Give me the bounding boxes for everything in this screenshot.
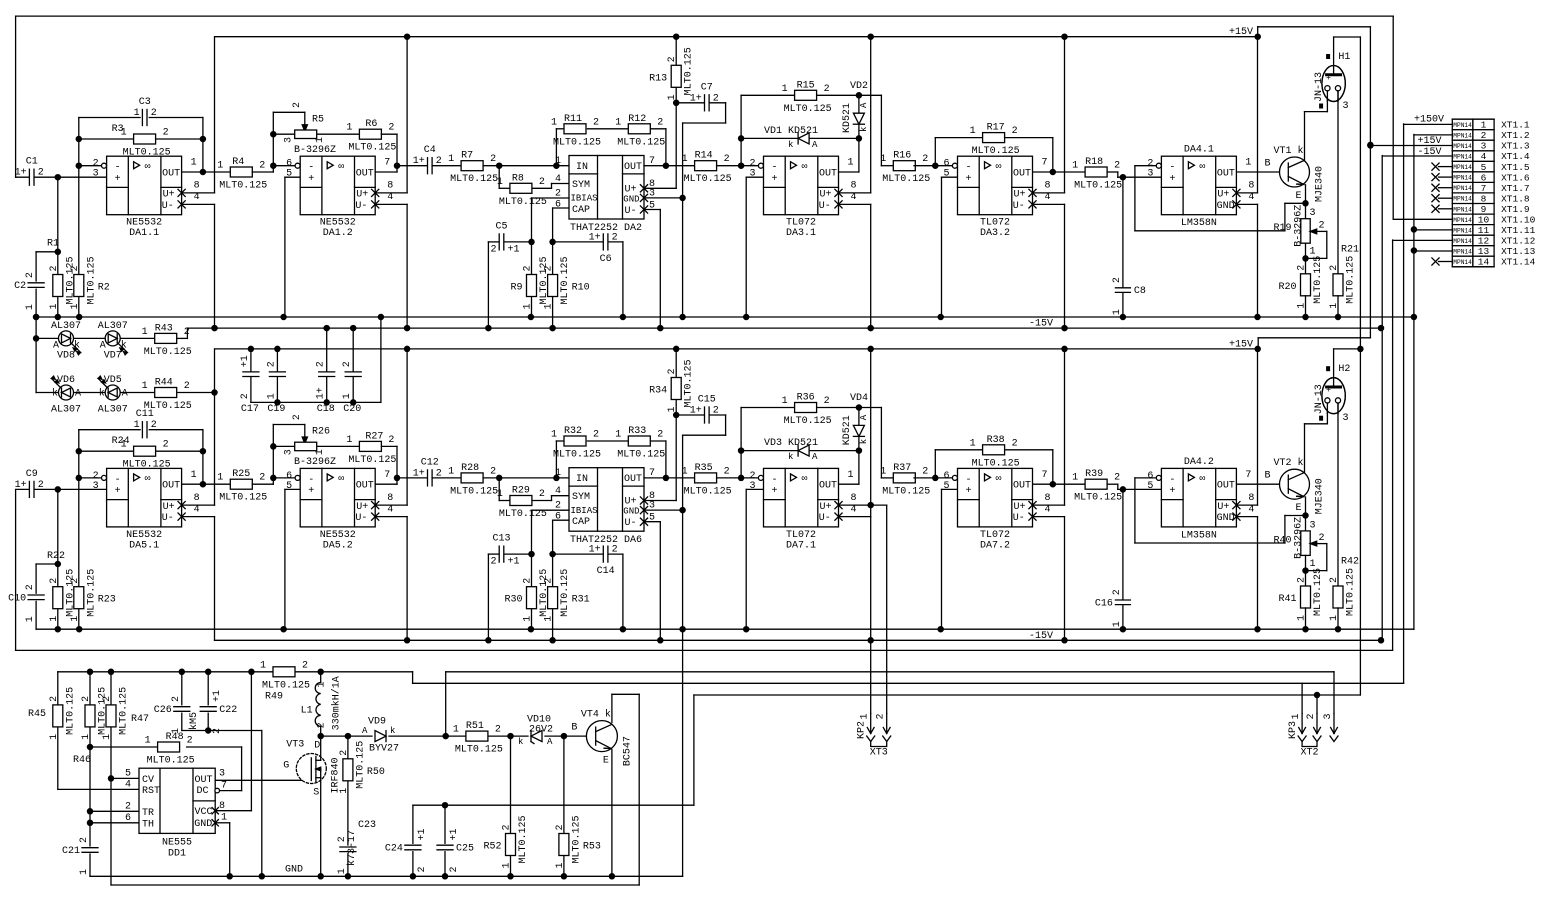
svg-text:1: 1 <box>448 154 454 165</box>
svg-text:2: 2 <box>388 123 394 134</box>
svg-text:-: - <box>966 475 972 486</box>
wire pin2 A5 feedback <box>1135 477 1157 479</box>
wire U+ riser A5 <box>1237 504 1258 506</box>
capacitor C15 <box>704 406 709 424</box>
svg-text:VT1: VT1 <box>1273 146 1291 157</box>
wire R16 out <box>914 165 952 167</box>
svg-text:k: k <box>390 726 395 736</box>
svg-text:MPN14: MPN14 <box>1453 249 1472 256</box>
svg-text:A: A <box>859 102 869 108</box>
svg-text:THAT2252 DA2: THAT2252 DA2 <box>570 223 642 234</box>
wire A2 supply pins <box>375 192 407 194</box>
svg-text:CAP: CAP <box>572 517 590 528</box>
svg-text:MPN14: MPN14 <box>1453 132 1472 139</box>
svg-text:C1: C1 <box>26 157 38 168</box>
capacitor C8 <box>1115 288 1130 293</box>
svg-text:+1: +1 <box>212 690 223 702</box>
wire R20 bottom <box>1305 296 1307 317</box>
svg-text:2: 2 <box>184 381 190 392</box>
wire out A3 <box>839 171 859 173</box>
wire LED row 1 <box>36 337 58 339</box>
svg-text:2: 2 <box>922 466 928 477</box>
svg-text:E: E <box>1296 191 1302 202</box>
svg-text:-: - <box>1169 475 1175 486</box>
svg-text:∞: ∞ <box>996 474 1002 485</box>
svg-text:MPN14: MPN14 <box>1453 206 1472 213</box>
svg-text:R25: R25 <box>232 469 250 480</box>
op-amp DA7.2 <box>958 468 1033 527</box>
wire R1 column <box>57 177 59 274</box>
wire VD2 column <box>858 95 860 172</box>
svg-text:U+: U+ <box>1014 502 1026 513</box>
svg-text:2: 2 <box>79 837 90 843</box>
svg-text:1: 1 <box>191 158 197 169</box>
wire C20 column <box>352 328 354 372</box>
svg-text:MJE340: MJE340 <box>1315 478 1326 514</box>
svg-text:XT3: XT3 <box>870 748 888 759</box>
svg-text:C8: C8 <box>1134 286 1146 297</box>
svg-text:5: 5 <box>125 768 131 779</box>
svg-text:R28: R28 <box>461 463 479 474</box>
svg-text:2: 2 <box>523 578 534 584</box>
svg-text:2: 2 <box>339 750 350 756</box>
resistor R20 <box>1301 274 1311 296</box>
svg-text:3: 3 <box>284 449 295 455</box>
wire input line ch2 (XT1.12) <box>15 490 17 651</box>
wire A1 supply pins <box>182 192 215 194</box>
wire VD10 line <box>511 735 529 737</box>
svg-text:C9: C9 <box>26 469 38 480</box>
svg-text:C24: C24 <box>385 844 403 855</box>
wire anode route H2 <box>1333 349 1335 378</box>
svg-text:k: k <box>1298 457 1304 469</box>
wire XT3 pin2 column <box>886 505 888 713</box>
svg-text:C12: C12 <box>421 457 439 468</box>
svg-text:2: 2 <box>1319 221 1325 232</box>
wire C8 column <box>1122 177 1124 287</box>
svg-text:2: 2 <box>824 84 830 95</box>
resistor R51 <box>466 731 488 741</box>
svg-text:7: 7 <box>221 780 227 791</box>
svg-text:2: 2 <box>724 466 730 477</box>
wire input line ch1 (XT1.10) <box>15 16 17 177</box>
wire pot wire <box>273 445 294 447</box>
resistor R28 <box>461 473 483 483</box>
wire C3 feedback <box>79 117 140 119</box>
svg-text:MLT0.125: MLT0.125 <box>972 146 1020 157</box>
wire -15V rail ch1 <box>187 327 1381 329</box>
resistor R8 <box>510 183 532 193</box>
wire to R7 <box>432 477 461 479</box>
svg-text:C14: C14 <box>597 566 615 577</box>
svg-text:R27: R27 <box>365 431 383 442</box>
wire C2 column <box>35 252 37 281</box>
wire VCC <box>215 810 251 812</box>
svg-text:2: 2 <box>240 393 251 399</box>
wire out A3 <box>839 483 859 485</box>
wire out A4 <box>1033 171 1085 173</box>
svg-text:VD8: VD8 <box>57 350 75 361</box>
svg-text:1+: 1+ <box>589 232 601 243</box>
wire R50 column <box>347 736 349 759</box>
svg-text:6: 6 <box>1481 172 1487 183</box>
svg-text:TL072: TL072 <box>786 530 816 541</box>
wire R20 bottom <box>1305 608 1307 629</box>
svg-text:C20: C20 <box>343 404 361 415</box>
svg-text:4: 4 <box>851 504 857 515</box>
svg-text:2: 2 <box>593 117 599 128</box>
capacitor C24 <box>405 845 421 850</box>
svg-text:1: 1 <box>1245 158 1251 169</box>
svg-text:R37: R37 <box>893 463 911 474</box>
wire C10 column <box>35 564 37 593</box>
wire cap bus <box>251 401 381 403</box>
potentiometer R5 <box>295 130 317 139</box>
wire A2 supply pins <box>375 504 407 506</box>
svg-text:U+: U+ <box>356 190 368 201</box>
VCA DA6 <box>569 468 644 532</box>
svg-text:2: 2 <box>1012 126 1018 137</box>
svg-text:U+: U+ <box>820 502 832 513</box>
svg-text:C4: C4 <box>424 145 436 156</box>
svg-text:DA7.2: DA7.2 <box>980 540 1010 551</box>
svg-text:R30: R30 <box>504 595 522 606</box>
svg-text:2: 2 <box>151 420 157 431</box>
wire R16 in <box>880 95 882 165</box>
svg-text:E: E <box>603 756 609 767</box>
svg-text:∞: ∞ <box>802 474 808 485</box>
svg-text:VD1 KD521: VD1 KD521 <box>764 126 818 137</box>
svg-text:2: 2 <box>417 866 428 872</box>
svg-text:1: 1 <box>337 868 348 874</box>
svg-text:1: 1 <box>79 869 90 875</box>
svg-text:R44: R44 <box>155 378 173 389</box>
resistor R13 <box>671 65 681 87</box>
svg-text:MLT0.125: MLT0.125 <box>1074 181 1122 192</box>
svg-text:MLT0.125: MLT0.125 <box>86 569 97 617</box>
wire R3 feedback <box>79 138 134 140</box>
resistor R42 <box>1333 586 1343 608</box>
svg-text:VT2: VT2 <box>1273 458 1291 469</box>
svg-text:5: 5 <box>943 481 949 492</box>
svg-text:MLT0.125: MLT0.125 <box>147 756 195 767</box>
svg-text:2: 2 <box>49 265 60 271</box>
svg-text:+1: +1 <box>508 244 520 255</box>
svg-text:THAT2252 DA6: THAT2252 DA6 <box>570 535 642 546</box>
svg-text:U+: U+ <box>1014 190 1026 201</box>
wire common line ch2 <box>36 628 1414 630</box>
svg-text:L1: L1 <box>301 705 313 716</box>
op-amp DA7.1 <box>764 468 839 527</box>
svg-text:1: 1 <box>315 137 326 143</box>
svg-text:-: - <box>308 475 314 486</box>
wire GND drop A5 <box>1237 203 1258 205</box>
potentiometer R40 <box>1301 531 1310 556</box>
svg-text:1+: 1+ <box>15 480 27 491</box>
svg-text:C19: C19 <box>267 404 285 415</box>
wire C2 column to LED rows <box>35 317 37 393</box>
svg-text:AL307: AL307 <box>51 321 81 332</box>
svg-text:2: 2 <box>70 578 81 584</box>
wire R18 out jog <box>1107 171 1118 173</box>
svg-text:1+: 1+ <box>413 156 425 167</box>
capacitor C14 <box>603 545 608 563</box>
wire lamp pin3 <box>1337 402 1339 404</box>
svg-text:+: + <box>966 486 972 497</box>
resistor R9 <box>527 275 537 297</box>
svg-text:k: k <box>1298 145 1304 157</box>
svg-text:1: 1 <box>551 117 557 128</box>
transistor VT1 <box>1280 157 1310 187</box>
svg-text:3: 3 <box>749 169 755 180</box>
svg-text:MLT0.125: MLT0.125 <box>560 569 571 617</box>
wire pot bottom <box>1305 555 1307 586</box>
resistor R29 <box>510 496 532 506</box>
svg-text:2: 2 <box>163 440 169 451</box>
svg-text:R48: R48 <box>166 732 184 743</box>
svg-text:8: 8 <box>194 181 200 192</box>
wire L1 column <box>320 672 322 683</box>
svg-text:3: 3 <box>93 169 99 180</box>
svg-text:OUT: OUT <box>1217 169 1235 180</box>
svg-text:2: 2 <box>259 161 265 172</box>
svg-text:5: 5 <box>286 481 292 492</box>
svg-text:R13: R13 <box>649 73 667 84</box>
svg-text:A: A <box>362 726 368 736</box>
svg-text:2: 2 <box>490 466 496 477</box>
resistor R34 <box>671 378 681 400</box>
svg-text:R9: R9 <box>510 283 522 294</box>
wire pot bottom <box>1305 243 1307 274</box>
svg-text:TR: TR <box>142 808 154 819</box>
wire VT4 collector loop <box>611 694 613 722</box>
resistor R25 <box>230 479 252 489</box>
svg-text:2: 2 <box>151 108 157 119</box>
svg-text:U-: U- <box>625 206 637 217</box>
svg-text:VD6: VD6 <box>57 375 75 386</box>
svg-text:U-: U- <box>819 513 831 524</box>
svg-text:VD2: VD2 <box>850 81 868 92</box>
svg-text:C21: C21 <box>62 846 80 857</box>
wire pot wire <box>273 133 294 135</box>
svg-text:DA4.2: DA4.2 <box>1184 457 1214 468</box>
svg-text:11: 11 <box>1478 225 1490 236</box>
svg-text:1: 1 <box>1291 713 1302 719</box>
svg-text:R51: R51 <box>466 721 484 732</box>
svg-text:C10: C10 <box>8 593 26 604</box>
svg-text:MLT0.125: MLT0.125 <box>684 359 695 407</box>
svg-text:MLT0.125: MLT0.125 <box>119 687 130 735</box>
svg-text:2: 2 <box>1114 473 1120 484</box>
svg-text:1: 1 <box>191 470 197 481</box>
svg-text:DA3.1: DA3.1 <box>786 228 816 239</box>
svg-text:1: 1 <box>346 435 352 446</box>
svg-text:2: 2 <box>171 696 182 702</box>
svg-text:+150V: +150V <box>1414 115 1444 126</box>
svg-text:2: 2 <box>49 578 60 584</box>
svg-text:B: B <box>1264 471 1270 482</box>
svg-text:R7: R7 <box>461 151 473 162</box>
svg-text:4: 4 <box>1248 504 1254 515</box>
wire lamp pin3 <box>1337 90 1339 92</box>
svg-text:2: 2 <box>490 557 496 568</box>
wire R52 column <box>510 736 512 833</box>
svg-text:5: 5 <box>943 169 949 180</box>
svg-text:MLT0.125: MLT0.125 <box>1313 256 1324 304</box>
svg-text:2: 2 <box>187 736 193 747</box>
svg-text:R45: R45 <box>28 709 46 720</box>
svg-text:4: 4 <box>194 504 200 515</box>
svg-text:1: 1 <box>555 468 561 479</box>
wire pin3 A3 <box>746 176 763 178</box>
svg-text:4: 4 <box>1045 192 1051 203</box>
svg-text:3: 3 <box>1323 713 1334 719</box>
svg-text:KD521: KD521 <box>842 103 853 133</box>
svg-text:VT3: VT3 <box>286 740 304 751</box>
potentiometer R26 <box>295 442 317 451</box>
resistor R15 <box>795 90 817 100</box>
wire collector <box>1304 112 1306 161</box>
svg-text:XT1.2: XT1.2 <box>1501 130 1530 141</box>
svg-text:VD5: VD5 <box>104 375 122 386</box>
svg-text:1: 1 <box>970 126 976 137</box>
svg-text:2: 2 <box>490 154 496 165</box>
svg-text:2: 2 <box>449 866 460 872</box>
svg-text:R31: R31 <box>572 595 590 606</box>
svg-text:1: 1 <box>523 616 534 622</box>
svg-text:D: D <box>314 741 320 752</box>
lamp H2 <box>1322 378 1345 414</box>
svg-text:k73-17: k73-17 <box>346 830 358 866</box>
wire A1 supply pins <box>182 504 215 506</box>
MOSFET VT3 <box>296 754 326 784</box>
resistor R45 <box>53 705 63 727</box>
svg-text:1: 1 <box>970 438 976 449</box>
svg-text:KD521: KD521 <box>842 415 853 445</box>
wire XT3 pin1 column <box>870 640 872 713</box>
svg-text:8: 8 <box>1248 493 1254 504</box>
resistor R31 <box>548 587 558 609</box>
svg-text:U-: U- <box>355 201 367 212</box>
svg-text:C3: C3 <box>139 97 151 108</box>
capacitor C11 <box>142 421 147 439</box>
svg-text:2: 2 <box>1012 438 1018 449</box>
resistor R27 <box>359 441 381 451</box>
svg-text:B: B <box>571 723 577 734</box>
svg-text:1: 1 <box>317 681 328 687</box>
svg-text:NE5532: NE5532 <box>320 530 356 541</box>
svg-text:-: - <box>115 163 121 174</box>
svg-text:MLT0.125: MLT0.125 <box>355 741 366 789</box>
svg-text:A: A <box>859 414 869 420</box>
svg-text:MPN14: MPN14 <box>1453 185 1472 192</box>
svg-text:k: k <box>52 388 58 400</box>
svg-text:R6: R6 <box>365 119 377 130</box>
diode VD1 <box>741 137 859 139</box>
svg-text:2: 2 <box>667 368 678 374</box>
svg-text:C13: C13 <box>492 534 510 545</box>
svg-text:2: 2 <box>266 361 277 367</box>
svg-text:1: 1 <box>102 734 113 740</box>
svg-text:k: k <box>788 452 793 462</box>
svg-text:2: 2 <box>302 660 308 671</box>
svg-text:XT1.6: XT1.6 <box>1501 172 1530 183</box>
svg-text:G: G <box>283 761 289 772</box>
svg-text:1: 1 <box>342 393 353 399</box>
svg-text:A: A <box>547 737 553 747</box>
svg-text:MLT0.125: MLT0.125 <box>617 450 665 461</box>
resistor R33 <box>628 436 650 446</box>
svg-text:9: 9 <box>1481 204 1487 215</box>
svg-text:2: 2 <box>316 361 327 367</box>
wire R47 column <box>110 672 112 705</box>
svg-text:R24: R24 <box>112 436 130 447</box>
resistor R22 <box>53 587 63 609</box>
svg-text:R17: R17 <box>987 123 1005 134</box>
svg-text:2: 2 <box>259 473 265 484</box>
svg-text:VD9: VD9 <box>368 717 386 728</box>
svg-text:10: 10 <box>1478 215 1490 226</box>
svg-text:2: 2 <box>292 414 303 420</box>
svg-text:U+: U+ <box>820 190 832 201</box>
wire out A4 <box>1033 483 1085 485</box>
wire R27 to out <box>381 445 397 447</box>
resistor R43 <box>155 333 177 343</box>
svg-text:1: 1 <box>544 303 555 309</box>
wire R38 feedback <box>934 450 936 478</box>
svg-text:7: 7 <box>1042 158 1048 169</box>
svg-text:GND: GND <box>623 507 639 517</box>
wire C14 path <box>553 553 604 555</box>
svg-text:DA3.2: DA3.2 <box>980 228 1010 239</box>
wire R30 column <box>532 509 570 511</box>
svg-text:330mkH/1A: 330mkH/1A <box>331 676 343 730</box>
svg-text:4: 4 <box>125 780 131 791</box>
svg-text:BYV27: BYV27 <box>369 744 399 755</box>
svg-text:KP2: KP2 <box>857 721 868 739</box>
wire that out <box>644 477 695 479</box>
svg-text:2: 2 <box>523 265 534 271</box>
svg-text:R42: R42 <box>1341 557 1359 568</box>
capacitor C5 <box>499 233 504 251</box>
svg-text:XT1.11: XT1.11 <box>1501 225 1536 236</box>
wire R16 out <box>914 477 952 479</box>
svg-text:1: 1 <box>667 406 678 412</box>
svg-text:SYM: SYM <box>572 492 590 503</box>
resistor R18 <box>1085 167 1107 177</box>
svg-text:2: 2 <box>713 406 719 417</box>
wire C24/C25 top line <box>413 804 694 806</box>
wire out A2 <box>375 483 397 485</box>
svg-text:1: 1 <box>848 158 854 169</box>
svg-text:7: 7 <box>1042 470 1048 481</box>
capacitor C10 <box>28 595 44 600</box>
svg-text:R52: R52 <box>483 842 501 853</box>
svg-text:R19: R19 <box>1273 223 1291 234</box>
svg-text:+: + <box>772 174 778 185</box>
svg-text:R50: R50 <box>367 767 385 778</box>
svg-text:MLT0.125: MLT0.125 <box>553 137 601 148</box>
svg-text:+1: +1 <box>417 828 428 840</box>
LED VD8 <box>59 331 74 346</box>
svg-text:2: 2 <box>612 545 618 556</box>
wire C16 column <box>1122 489 1124 599</box>
wire emitter <box>1305 185 1307 219</box>
svg-text:3: 3 <box>749 481 755 492</box>
svg-text:R4: R4 <box>232 157 244 168</box>
capacitor C21 <box>82 848 98 853</box>
svg-text:1+: 1+ <box>413 468 425 479</box>
